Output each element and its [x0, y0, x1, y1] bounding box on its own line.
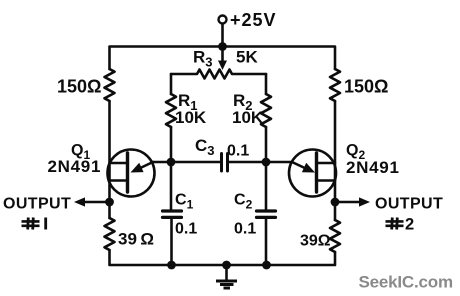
supply stem +25V: [221, 24, 224, 47]
resistor 39ohm right: [330, 220, 340, 252]
svg-text:SeekIC.com: SeekIC.com: [359, 273, 453, 292]
transistor Q2 base1 stub: [317, 179, 336, 182]
bottom dot right: [262, 261, 271, 270]
wiper wire R3: [221, 47, 224, 63]
wire R3 left leg to R1: [170, 74, 173, 94]
svg-text:150Ω: 150Ω: [344, 77, 388, 97]
transistor Q1 base2 stub: [110, 162, 128, 165]
svg-text:0.1: 0.1: [227, 143, 249, 160]
wire emitter row right (C3 to Q2): [228, 161, 293, 164]
transistor Q2 circle: [289, 150, 336, 197]
output 2 arrowhead: [359, 197, 370, 206]
transistor Q1 base bar: [126, 153, 129, 192]
wire R2 to node B: [265, 127, 268, 162]
node A dot: [167, 158, 176, 167]
svg-text:C1: C1: [175, 192, 194, 212]
wire R3 right leg to R2: [265, 74, 268, 94]
wire node B to C2: [265, 162, 268, 211]
wire left rail mid: [108, 101, 111, 218]
transistor Q2 emitter arrowhead: [302, 163, 315, 173]
transistor Q1 emitter arrowhead: [131, 163, 144, 173]
wire right rail mid: [334, 101, 337, 220]
ground stem: [225, 265, 228, 280]
capacitor C3 plates: [220, 154, 223, 172]
transistor Q2 emitter lead: [292, 162, 309, 170]
label #1: [22, 218, 46, 230]
resistor 150ohm left: [105, 69, 115, 101]
wire bottom rail: [110, 250, 336, 265]
wire C1 to bottom rail: [170, 217, 173, 265]
capacitor C1 plates: [163, 209, 182, 212]
svg-text:2N491: 2N491: [346, 158, 400, 177]
svg-text:C3: C3: [195, 136, 215, 158]
svg-text:5K: 5K: [236, 48, 258, 67]
svg-text:10K: 10K: [175, 108, 207, 127]
wire C2 to bottom rail: [265, 217, 268, 265]
ground bar 1: [216, 280, 237, 283]
ground bar 2: [220, 283, 234, 286]
ground bar 3: [224, 287, 231, 290]
svg-text:10K: 10K: [232, 108, 264, 127]
bottom dot center: [222, 261, 231, 270]
svg-text:OUTPUT: OUTPUT: [3, 196, 71, 213]
terminal circle +25V: [219, 16, 227, 24]
wire top rail: [110, 47, 336, 70]
wire output 1: [78, 201, 110, 204]
resistor R2: [261, 94, 271, 127]
svg-text:+25V: +25V: [230, 10, 277, 30]
potentiometer R3 body: [171, 70, 266, 79]
wire R1 to node A: [170, 127, 173, 162]
wire emitter row left (Q1 to C3): [153, 161, 222, 164]
junction dot top +25V: [218, 42, 227, 51]
label #2: [386, 218, 404, 230]
svg-text:OUTPUT: OUTPUT: [375, 196, 443, 213]
transistor Q2 base bar: [315, 153, 318, 192]
transistor Q1 base1 stub: [110, 179, 128, 182]
transistor Q1 circle: [108, 150, 155, 197]
bottom dot left: [167, 261, 176, 270]
svg-text:39Ω: 39Ω: [300, 233, 331, 250]
capacitor C2 plates: [257, 209, 276, 212]
resistor 150ohm right: [330, 69, 340, 101]
transistor Q1 emitter lead: [136, 162, 153, 170]
svg-text:0.1: 0.1: [175, 221, 197, 238]
svg-text:0.1: 0.1: [234, 221, 256, 238]
output 2 node dot: [331, 198, 340, 207]
svg-text:39 Ω: 39 Ω: [118, 230, 154, 249]
svg-text:2: 2: [405, 216, 414, 234]
output 1 node dot: [105, 198, 114, 207]
resistor R1: [166, 94, 176, 127]
transistor Q2 base2 stub: [317, 162, 336, 165]
wiper arrowhead: [218, 61, 227, 71]
output 1 arrowhead: [74, 197, 85, 206]
svg-text:R3: R3: [193, 48, 213, 70]
svg-text:150Ω: 150Ω: [57, 77, 101, 97]
svg-text:2N491: 2N491: [48, 157, 102, 176]
resistor 39ohm left: [105, 218, 115, 250]
svg-text:C2: C2: [234, 192, 253, 212]
wire output 2: [335, 201, 366, 204]
node B dot: [262, 158, 271, 167]
wire node A to C1: [170, 162, 173, 211]
